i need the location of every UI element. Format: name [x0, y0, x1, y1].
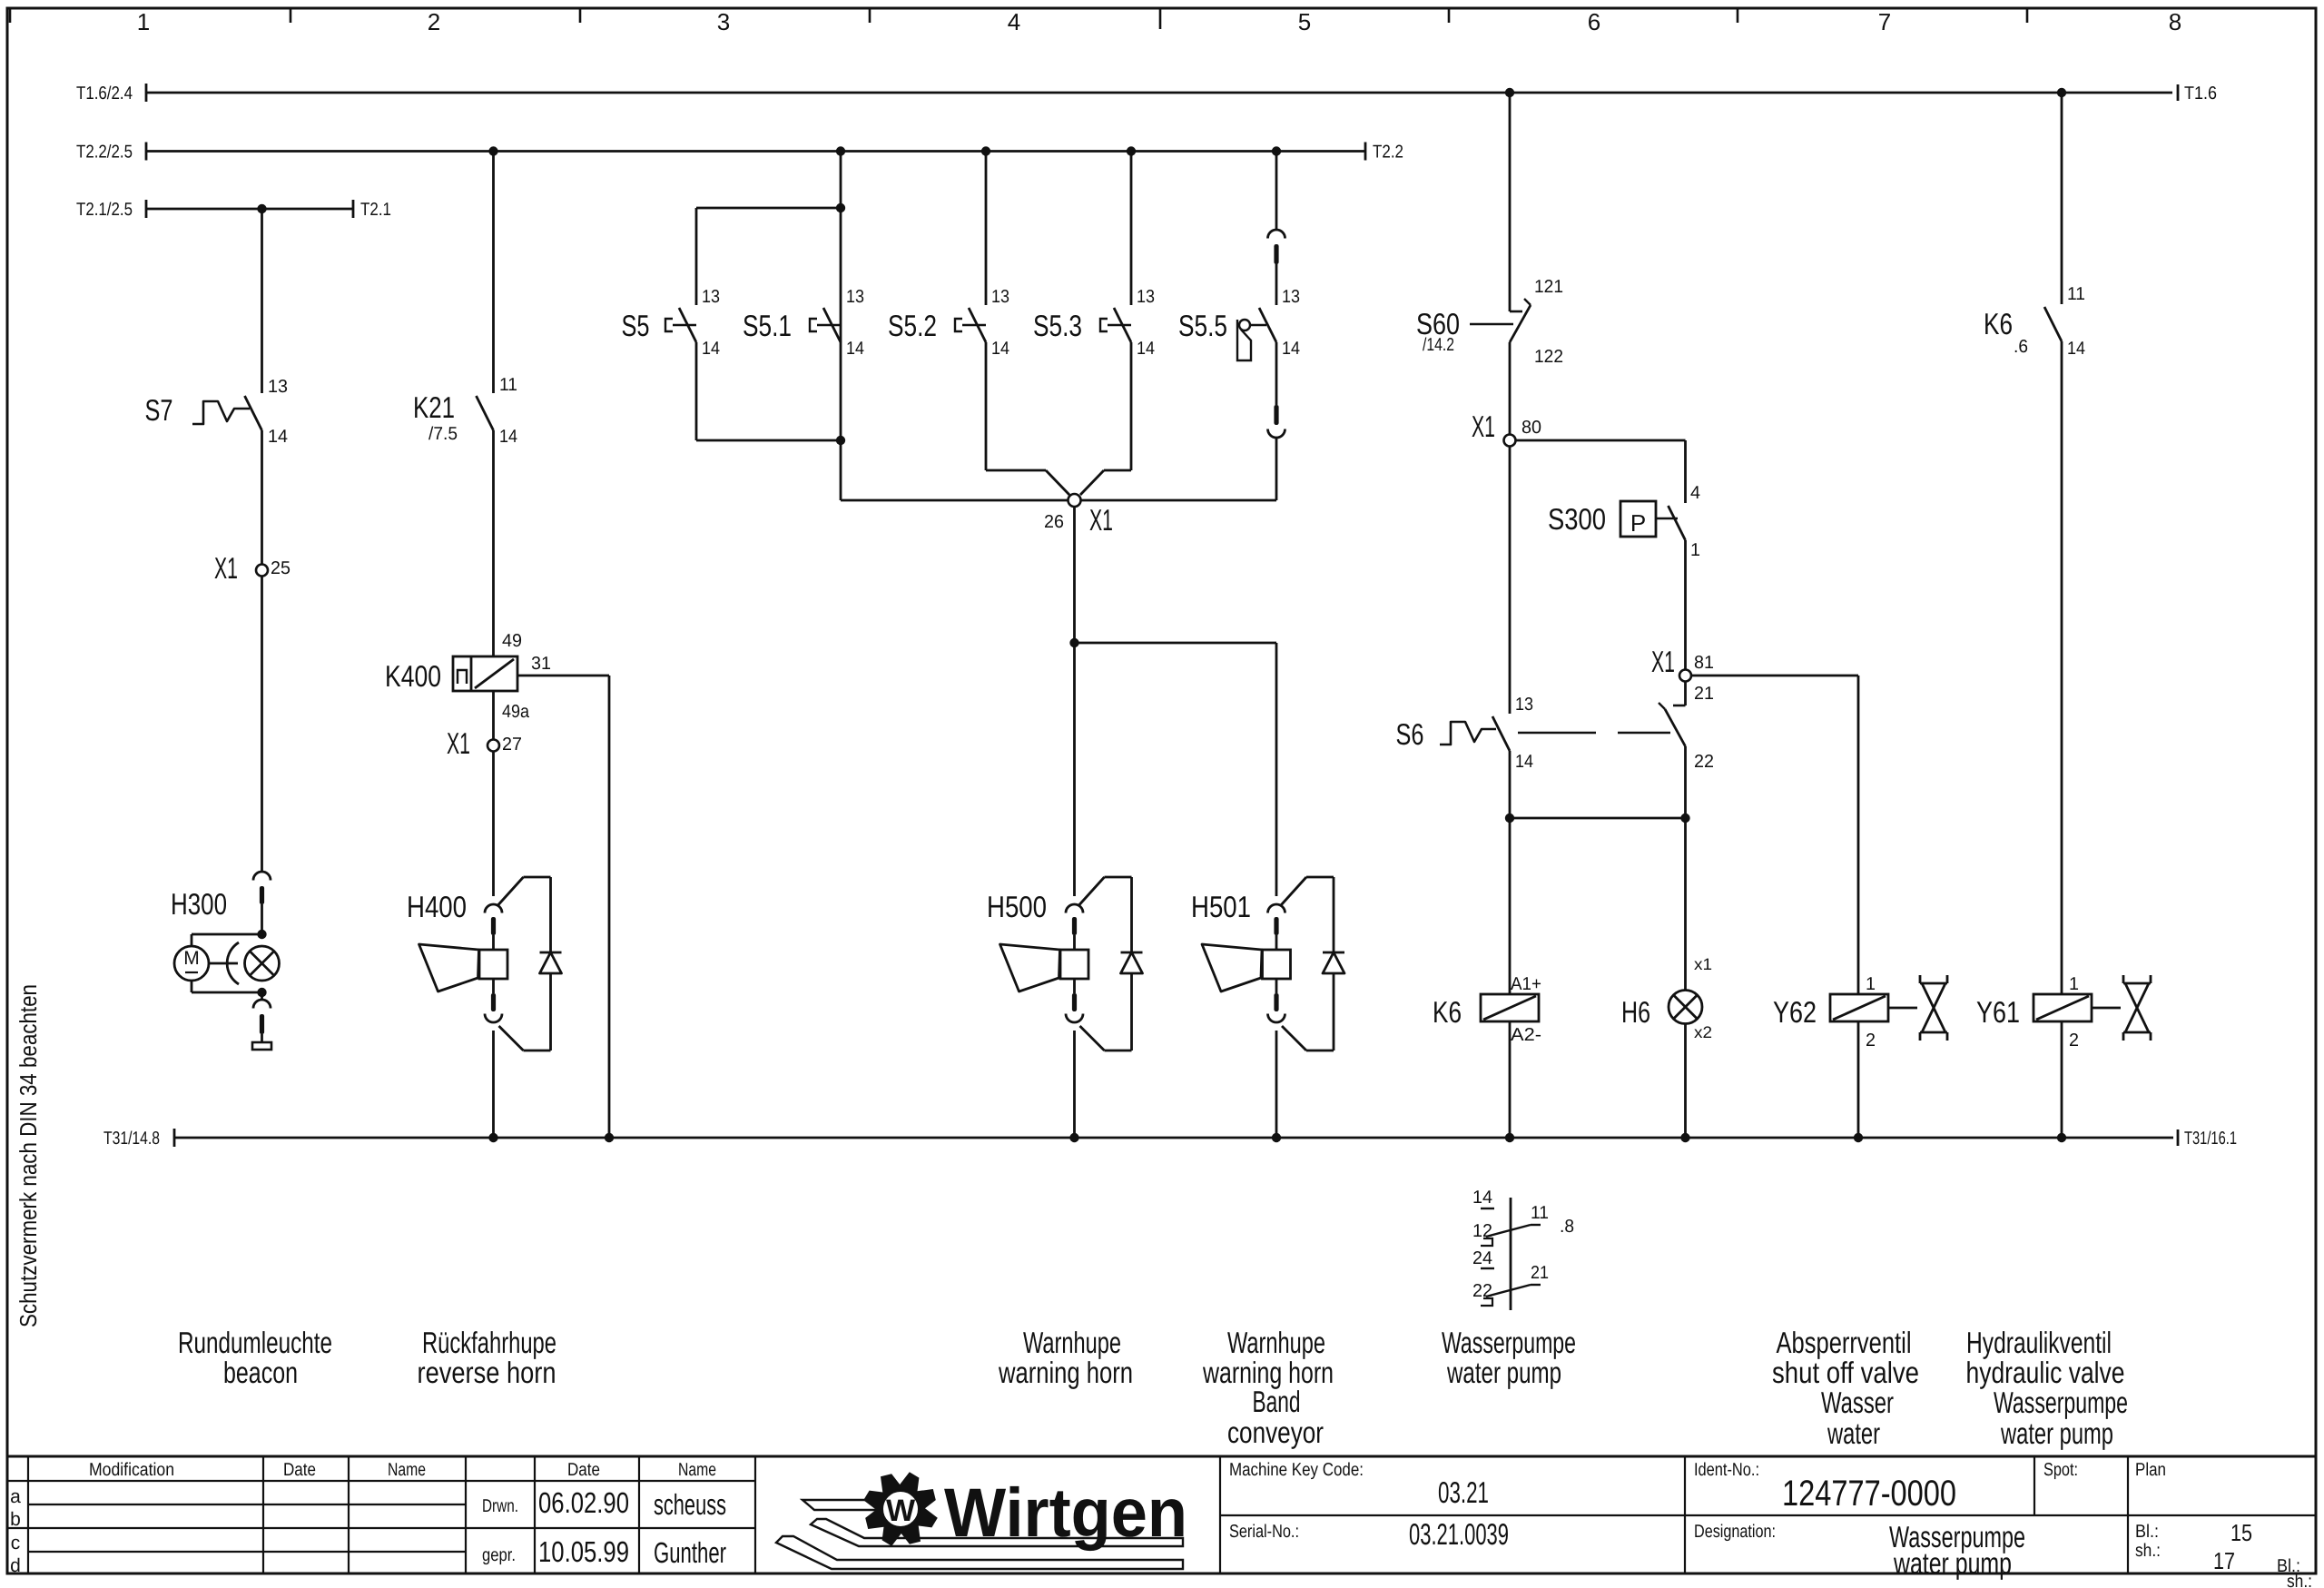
Wirtgen logo	[803, 1500, 883, 1510]
svg-text:13: 13	[846, 287, 864, 307]
svg-text:M: M	[183, 948, 200, 969]
svg-text:beacon: beacon	[223, 1356, 298, 1389]
wire S5.5 to X1:26	[1080, 499, 1276, 502]
wire down to K6 coil	[1509, 818, 1512, 994]
svg-text:Wasser: Wasser	[1821, 1386, 1894, 1419]
svg-text:S5.5: S5.5	[1178, 309, 1227, 342]
svg-text:T31/14.8: T31/14.8	[103, 1129, 160, 1149]
svg-text:1: 1	[2069, 974, 2079, 994]
svg-text:.6: .6	[2014, 337, 2028, 357]
wire X1:25 to H300	[261, 576, 263, 871]
svg-text:24: 24	[1472, 1248, 1492, 1268]
svg-text:14: 14	[1472, 1188, 1492, 1208]
svg-text:H300: H300	[171, 887, 227, 921]
svg-text:2: 2	[2069, 1031, 2079, 1050]
terminal X1 pin 80	[1504, 435, 1516, 447]
horn H500 suppressor diode bracket	[1079, 877, 1105, 905]
svg-text:Name: Name	[678, 1460, 716, 1480]
switch S5	[665, 319, 673, 331]
impulse relay K400 coil	[453, 656, 517, 691]
valve symbol for Y62	[1888, 1007, 1917, 1010]
svg-text:14: 14	[2067, 339, 2085, 359]
svg-text:14: 14	[1282, 339, 1300, 359]
svg-text:22: 22	[1694, 752, 1714, 772]
junction dots on T1.6	[1505, 88, 1514, 97]
svg-text:reverse horn: reverse horn	[418, 1356, 556, 1389]
wire S5.1 to collector	[840, 440, 842, 500]
svg-text:2: 2	[1866, 1031, 1876, 1050]
svg-text:Name: Name	[388, 1460, 426, 1480]
horn H500 body	[1060, 950, 1088, 979]
svg-text:27: 27	[502, 735, 522, 755]
beacon H300 connector bottom	[261, 992, 263, 999]
horn H501 connector top	[1268, 904, 1285, 912]
wire to S300 contact	[1684, 440, 1687, 503]
svg-text:121: 121	[1534, 277, 1563, 297]
svg-text:Spot:: Spot:	[2043, 1460, 2078, 1480]
wire S5.2 to X1:26	[985, 342, 988, 470]
svg-text:81: 81	[1694, 653, 1714, 673]
svg-text:11: 11	[2067, 284, 2085, 304]
svg-text:14: 14	[991, 339, 1009, 359]
wire Y61 to T31	[2061, 1021, 2063, 1138]
wire K6 contact to Y61	[2061, 341, 2063, 994]
svg-text:Gunther: Gunther	[654, 1536, 726, 1569]
svg-text:conveyor: conveyor	[1227, 1415, 1324, 1449]
relay contact K6 (NO)	[2044, 307, 2062, 341]
K6 contact cross-reference	[1510, 1198, 1512, 1310]
S6 mechanical link	[1518, 732, 1596, 734]
info block	[1219, 1456, 1221, 1573]
indicator lamp H6	[1669, 991, 1702, 1024]
wire S300 to X1:81	[1684, 540, 1687, 670]
svg-text:c: c	[11, 1533, 21, 1553]
bus rail T2.1/2.5	[146, 208, 353, 211]
horn H400 connector bottom	[491, 993, 496, 1011]
svg-text:7: 7	[1878, 8, 1891, 35]
valve symbol for Y61	[2092, 1007, 2121, 1010]
svg-text:A2-: A2-	[1511, 1025, 1541, 1045]
svg-text:water: water	[1827, 1416, 1880, 1450]
svg-text:/7.5: /7.5	[428, 424, 458, 444]
wire T2.2 to S5/S5.1 branch	[840, 152, 842, 441]
beacon H300 connector top	[253, 872, 271, 880]
svg-text:Rundumleuchte: Rundumleuchte	[178, 1326, 332, 1359]
svg-text:X1: X1	[214, 551, 238, 585]
svg-text:/14.2: /14.2	[1423, 335, 1454, 355]
svg-text:Designation:: Designation:	[1694, 1522, 1776, 1542]
svg-text:X1: X1	[1651, 645, 1675, 678]
svg-text:3: 3	[717, 8, 730, 35]
solenoid valve coil Y61	[2033, 994, 2092, 1021]
wire K400 pin31 branch	[517, 675, 609, 677]
svg-text:x2: x2	[1694, 1023, 1712, 1041]
wire T2.2 to S5.3	[1130, 152, 1133, 306]
svg-text:Hydraulikventil: Hydraulikventil	[1966, 1326, 2112, 1359]
svg-text:14: 14	[1137, 339, 1155, 359]
svg-text:13: 13	[268, 377, 288, 397]
bus rail T1.6/2.4	[146, 92, 2172, 94]
S5.5 pedal actuator	[1239, 320, 1250, 330]
svg-text:Schutzvermerk nach DIN 34 beac: Schutzvermerk nach DIN 34 beachten	[15, 984, 42, 1327]
node S5 branch top	[836, 203, 845, 212]
svg-text:03.21.0039: 03.21.0039	[1409, 1517, 1509, 1551]
switch S5.3	[1100, 319, 1108, 331]
terminal X1 pin 25	[256, 565, 268, 577]
pressure switch S300	[1620, 501, 1656, 537]
svg-text:Warnhupe: Warnhupe	[1023, 1326, 1121, 1359]
switch S5.1	[810, 319, 817, 331]
wire X1:27 to H400	[492, 751, 495, 896]
svg-text:sh.:: sh.:	[2287, 1572, 2312, 1588]
svg-text:14: 14	[1515, 752, 1533, 772]
S5 parallel wire top	[696, 207, 841, 210]
relay contact K21 (NO)	[477, 396, 494, 430]
horn H400 suppressor diode bracket	[498, 877, 524, 905]
svg-text:W: W	[886, 1494, 916, 1528]
svg-text:K400: K400	[385, 659, 441, 693]
wire T2.2 to S5.2	[985, 152, 988, 306]
svg-text:Wasserpumpe: Wasserpumpe	[1442, 1326, 1576, 1359]
wire T2.2 to S5.5 connector	[1275, 152, 1278, 230]
svg-text:water pump: water pump	[1893, 1546, 2012, 1580]
svg-text:.8: .8	[1560, 1217, 1574, 1237]
svg-text:Modification: Modification	[89, 1460, 174, 1480]
svg-text:X1: X1	[1089, 503, 1113, 537]
svg-text:124777-0000: 124777-0000	[1782, 1474, 1956, 1514]
wire S5.3 to X1:26	[1130, 342, 1133, 470]
svg-text:S5.2: S5.2	[888, 309, 937, 342]
terminal X1 pin 27	[487, 740, 499, 752]
svg-text:14: 14	[846, 339, 864, 359]
svg-text:Band: Band	[1253, 1385, 1301, 1418]
S5.5 connector bottom	[1275, 342, 1278, 405]
svg-text:15: 15	[2230, 1519, 2252, 1546]
svg-text:x1: x1	[1694, 955, 1712, 973]
wire to H500	[1073, 643, 1076, 896]
svg-text:Serial-No.:: Serial-No.:	[1229, 1522, 1299, 1542]
node K6/H6 link right	[1680, 814, 1689, 823]
svg-text:K6: K6	[1984, 307, 2013, 340]
relay coil K6	[1481, 994, 1539, 1021]
svg-text:Absperrventil: Absperrventil	[1777, 1326, 1912, 1359]
svg-text:13: 13	[1137, 287, 1155, 307]
svg-text:S5.1: S5.1	[743, 309, 792, 342]
svg-text:03.21: 03.21	[1438, 1475, 1489, 1509]
junction dots on T2.2	[488, 146, 497, 155]
svg-text:13: 13	[1282, 287, 1300, 307]
svg-text:A1+: A1+	[1511, 974, 1541, 994]
horn H501 suppressor diode bracket	[1281, 877, 1306, 905]
svg-text:X1: X1	[1472, 409, 1495, 443]
svg-text:25: 25	[271, 558, 290, 578]
wire K21 to K400	[492, 430, 495, 656]
wire K400 to X1:27	[492, 691, 495, 740]
wire T2.1 to S7	[261, 209, 263, 393]
horn H500 connector bottom	[1072, 993, 1077, 1011]
horn H400 body	[479, 950, 507, 979]
svg-text:Date: Date	[567, 1460, 600, 1480]
svg-text:S300: S300	[1548, 502, 1606, 536]
svg-text:11: 11	[1531, 1203, 1549, 1223]
svg-text:21: 21	[1531, 1263, 1549, 1283]
wire to H501 branch	[1075, 642, 1277, 645]
svg-text:13: 13	[702, 287, 720, 307]
svg-text:water pump: water pump	[2000, 1416, 2113, 1450]
svg-text:31: 31	[531, 654, 551, 674]
wire X1:80 to S300	[1516, 439, 1686, 442]
wire X1:81 to Y62 branch	[1691, 675, 1858, 677]
horn H501 connector bottom	[1274, 993, 1278, 1011]
svg-text:Drwn.: Drwn.	[482, 1496, 518, 1516]
node K6/H6 link left	[1505, 814, 1514, 823]
bus rail T2.2/2.5	[146, 150, 1364, 153]
svg-text:11: 11	[499, 375, 517, 395]
svg-text:06.02.90: 06.02.90	[538, 1486, 629, 1519]
wire X1:26 down	[1073, 507, 1076, 643]
svg-text:1: 1	[1866, 974, 1876, 994]
svg-text:8: 8	[2169, 8, 2181, 35]
node S5 branch bottom	[836, 436, 845, 445]
svg-text:Y61: Y61	[1976, 995, 2020, 1029]
wire T1.6 to K6 contact	[2061, 93, 2063, 304]
wire H6 to T31	[1684, 1024, 1687, 1139]
svg-text:10.05.99: 10.05.99	[538, 1535, 629, 1568]
svg-text:4: 4	[1690, 483, 1700, 503]
svg-text:1: 1	[137, 8, 150, 35]
svg-text:T31/16.1: T31/16.1	[2184, 1129, 2237, 1149]
wire H501 to T31	[1275, 1031, 1278, 1138]
svg-text:P: P	[1630, 509, 1646, 537]
svg-text:14: 14	[499, 427, 517, 447]
svg-text:T2.2: T2.2	[1373, 143, 1403, 163]
svg-text:a: a	[10, 1486, 21, 1507]
svg-text:S5: S5	[622, 309, 650, 342]
svg-text:14: 14	[702, 339, 720, 359]
node warning horn split	[1069, 638, 1078, 647]
H300 chassis terminal	[252, 1042, 271, 1050]
bus rail T31/14.8 - T31/16.1	[174, 1137, 2173, 1139]
link wire	[1510, 817, 1686, 820]
svg-text:H400: H400	[407, 890, 467, 923]
svg-text:26: 26	[1044, 512, 1064, 532]
terminal X1 pin 26	[1068, 494, 1081, 507]
svg-text:6: 6	[1588, 8, 1600, 35]
svg-text:sh.:: sh.:	[2135, 1541, 2161, 1561]
wire T2.2 to K21	[492, 152, 495, 394]
switch S5.5 (foot operated)	[1259, 308, 1276, 342]
svg-text:Plan: Plan	[2135, 1460, 2166, 1480]
S5.5 connector top	[1268, 230, 1285, 239]
svg-text:Machine Key Code:: Machine Key Code:	[1229, 1460, 1364, 1480]
svg-text:49: 49	[502, 631, 522, 651]
svg-text:5: 5	[1298, 8, 1311, 35]
svg-text:Warnhupe: Warnhupe	[1227, 1326, 1325, 1359]
svg-text:Date: Date	[283, 1460, 316, 1480]
svg-text:water pump: water pump	[1446, 1356, 1561, 1389]
svg-text:T2.1: T2.1	[360, 200, 391, 220]
wire T1.6 to S60	[1509, 93, 1512, 311]
title block frame	[7, 1455, 2316, 1458]
horn H400 connector top	[485, 904, 502, 912]
switch S60 (NC limit)	[1510, 311, 1522, 313]
horn H501 body	[1263, 950, 1291, 979]
wire S60 to X1:80	[1509, 342, 1512, 435]
terminal X1 pin 81	[1679, 670, 1691, 682]
svg-text:4: 4	[1008, 8, 1020, 35]
junction dots on T31	[488, 1133, 497, 1142]
svg-text:49a: 49a	[502, 702, 530, 722]
revision table	[7, 1480, 755, 1482]
svg-text:scheuss: scheuss	[654, 1488, 726, 1521]
wire K6 coil to T31	[1509, 1021, 1512, 1138]
svg-text:K6: K6	[1433, 995, 1462, 1029]
svg-text:T2.1/2.5: T2.1/2.5	[76, 200, 133, 220]
svg-text:14: 14	[268, 427, 288, 447]
svg-text:Ident-No.:: Ident-No.:	[1694, 1460, 1759, 1480]
svg-text:b: b	[10, 1509, 21, 1530]
svg-text:1: 1	[1690, 540, 1700, 560]
svg-text:17: 17	[2213, 1547, 2235, 1574]
svg-text:80: 80	[1521, 418, 1541, 438]
svg-text:S5.3: S5.3	[1033, 309, 1082, 342]
svg-text:H6: H6	[1621, 995, 1650, 1029]
wire Y62 to T31	[1857, 1021, 1860, 1138]
svg-text:warning horn: warning horn	[998, 1356, 1133, 1389]
diode across H501	[1323, 952, 1344, 954]
wire H400 to T31	[492, 1031, 495, 1138]
svg-text:13: 13	[1515, 695, 1533, 715]
horn H500 connector top	[1066, 904, 1083, 912]
diode across H400	[540, 952, 562, 954]
svg-text:shut off valve: shut off valve	[1772, 1356, 1919, 1389]
switch S5.2	[955, 319, 962, 331]
svg-text:122: 122	[1534, 347, 1563, 367]
svg-text:2: 2	[428, 8, 440, 35]
svg-text:hydraulic valve: hydraulic valve	[1966, 1356, 2125, 1389]
solenoid valve coil Y62	[1830, 994, 1888, 1021]
svg-text:Wasserpumpe: Wasserpumpe	[1994, 1386, 2128, 1419]
switch S6 (latched NO)	[1509, 713, 1512, 715]
svg-text:S7: S7	[145, 393, 173, 427]
svg-text:H500: H500	[987, 890, 1047, 923]
svg-text:Y62: Y62	[1773, 995, 1817, 1029]
svg-text:Bl.:: Bl.:	[2135, 1522, 2159, 1542]
node H300 top	[257, 930, 266, 939]
svg-text:Wirtgen: Wirtgen	[944, 1475, 1187, 1552]
svg-text:gepr.: gepr.	[482, 1545, 516, 1565]
switch S7 (latched NO pushbutton)	[245, 396, 262, 430]
wire down to H6	[1684, 818, 1687, 990]
svg-text:T2.2/2.5: T2.2/2.5	[76, 143, 133, 163]
svg-text:d: d	[10, 1555, 21, 1576]
diode across H500	[1121, 952, 1143, 954]
wire contact 22 down	[1684, 746, 1687, 818]
S5 parallel wire bottom	[696, 439, 841, 442]
svg-text:T1.6/2.4: T1.6/2.4	[76, 84, 133, 104]
svg-text:S6: S6	[1396, 717, 1424, 751]
svg-text:K21: K21	[413, 390, 455, 424]
svg-text:H501: H501	[1191, 890, 1251, 923]
junction dot on T2.1	[257, 204, 266, 213]
svg-text:21: 21	[1694, 684, 1714, 704]
svg-text:Rückfahrhupe: Rückfahrhupe	[422, 1326, 556, 1359]
node H300 bottom	[257, 988, 266, 997]
wire X1:81 down to NC contact 21/22	[1684, 681, 1687, 705]
wire H500 to T31	[1073, 1031, 1076, 1138]
wire X1:80 down to S6	[1509, 446, 1512, 714]
beacon H300 motor + lamp	[192, 933, 262, 936]
wire S6 to K6 coil	[1509, 751, 1512, 818]
svg-text:13: 13	[991, 287, 1009, 307]
svg-text:X1: X1	[447, 726, 470, 760]
ruler ticks	[9, 8, 12, 23]
NC contact 21-22 (of S6)	[1673, 705, 1686, 707]
svg-text:T1.6: T1.6	[2184, 84, 2217, 104]
